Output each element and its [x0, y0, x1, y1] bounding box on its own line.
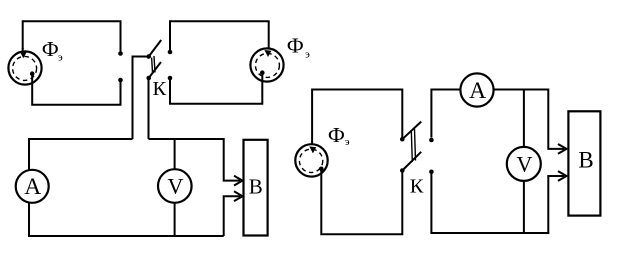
photocell PE2 outer circle [250, 48, 283, 81]
wire lower circuit top right segment [149, 138, 224, 140]
svg-text:К: К [152, 78, 166, 100]
arrowhead lower into B1 [234, 191, 243, 201]
wire ammeter branch upper [28, 138, 30, 170]
svg-text:Ф: Ф [328, 123, 345, 147]
svg-text:Ф: Ф [42, 37, 59, 61]
wire loop1 top: PE1 top up, across, down to upper contact [23, 21, 121, 51]
node lower contact loop1 [118, 78, 123, 83]
wire loop2 top: upper contact up, across, down into PE2 [170, 21, 269, 51]
node switch K2 contact upper [429, 138, 434, 143]
voltmeter V2 circle [507, 147, 541, 181]
box B2 rectangle [568, 111, 600, 215]
wire voltmeter branch upper [174, 139, 176, 168]
switch K2 blade 1 [402, 122, 421, 140]
wire lower circuit bottom [28, 235, 224, 237]
photocell PE3 cathode node dot [319, 167, 324, 172]
wire loop2 bottom: lower contact down, across, up into PE2 dot [170, 73, 262, 104]
node upper contact loop2 [168, 50, 173, 55]
svg-text:V: V [167, 174, 183, 199]
arrowhead lower into B2 [558, 171, 567, 181]
ammeter A1 circle [16, 170, 49, 203]
wire switch K1 right leg down to lower circuit [148, 78, 150, 139]
wire right measuring loop bottom [430, 232, 549, 234]
wire voltmeter branch lower [174, 204, 176, 236]
photocell PE1 cathode node dot [30, 71, 35, 76]
svg-text:Ф: Ф [287, 34, 304, 58]
switch K1 mechanical link lines [152, 56, 155, 74]
wire right branch upper with arrow into B1 [224, 138, 240, 181]
node lower contact loop2 [168, 76, 173, 81]
switch K2 blade 2 [402, 152, 421, 171]
arrowhead upper into B1 [234, 176, 243, 186]
switch K1 feed bracket (left leg, stub, to pole contacts) [133, 57, 149, 140]
svg-text:э: э [345, 136, 350, 148]
photocell PE3 outer circle [295, 144, 327, 176]
wire right measuring loop left vertical upper to contact [431, 90, 459, 138]
wire top from ammeter A2 to right corner [494, 89, 548, 91]
switch K1 blade 2 [149, 62, 161, 78]
photocell PE3 anode lead arrow [309, 146, 316, 153]
wire right branch lower with arrow into B2 [548, 176, 564, 233]
switch K2 pole 2 node [400, 168, 405, 173]
wire ammeter branch lower [28, 203, 30, 236]
photocell PE1 inner dashed electrode [13, 56, 37, 80]
box B1 rectangle [244, 140, 268, 236]
node upper contact loop1 [118, 51, 123, 56]
svg-text:э: э [305, 48, 310, 60]
photocell PE3 inner dashed electrode [299, 149, 322, 172]
svg-text:э: э [58, 52, 63, 64]
svg-text:К: К [410, 176, 424, 198]
svg-text:V: V [516, 151, 532, 176]
wire voltmeter V2 branch upper [523, 90, 525, 147]
wire lower circuit top left segment [28, 138, 133, 140]
photocell PE2 anode lead arrow [264, 50, 271, 57]
svg-text:A: A [24, 174, 41, 200]
switch K2 mechanical link lines [411, 129, 415, 162]
svg-text:В: В [249, 174, 263, 198]
arrowhead upper into B2 [558, 144, 567, 154]
wire right measuring loop left vertical lower [430, 172, 432, 233]
switch K1 pole 2 node [146, 76, 151, 81]
switch K1 blade 1 [149, 40, 162, 57]
wire right circuit photocell loop bottom [321, 169, 402, 235]
photocell PE1 outer circle [8, 51, 41, 84]
ammeter A2 circle [460, 73, 493, 106]
node switch K2 contact lower [429, 170, 434, 175]
photocell PE2 cathode node dot [260, 70, 265, 75]
svg-text:В: В [578, 148, 593, 173]
wire voltmeter V2 branch lower [523, 182, 525, 233]
switch K1 pole 1 node [146, 54, 151, 59]
wire right branch upper with arrow into B2 [548, 89, 564, 149]
switch K2 pole 1 node [400, 137, 405, 142]
wire loop1 bottom: lower contact down, across, up into PE1 dot [32, 74, 120, 105]
voltmeter V1 circle [158, 169, 192, 203]
svg-text:A: A [469, 78, 486, 104]
wire right branch lower with arrow into B1 [224, 196, 240, 236]
wire right circuit photocell loop top [312, 90, 402, 145]
photocell PE2 inner dashed electrode [255, 53, 279, 77]
photocell PE1 anode lead arrow [20, 48, 27, 58]
